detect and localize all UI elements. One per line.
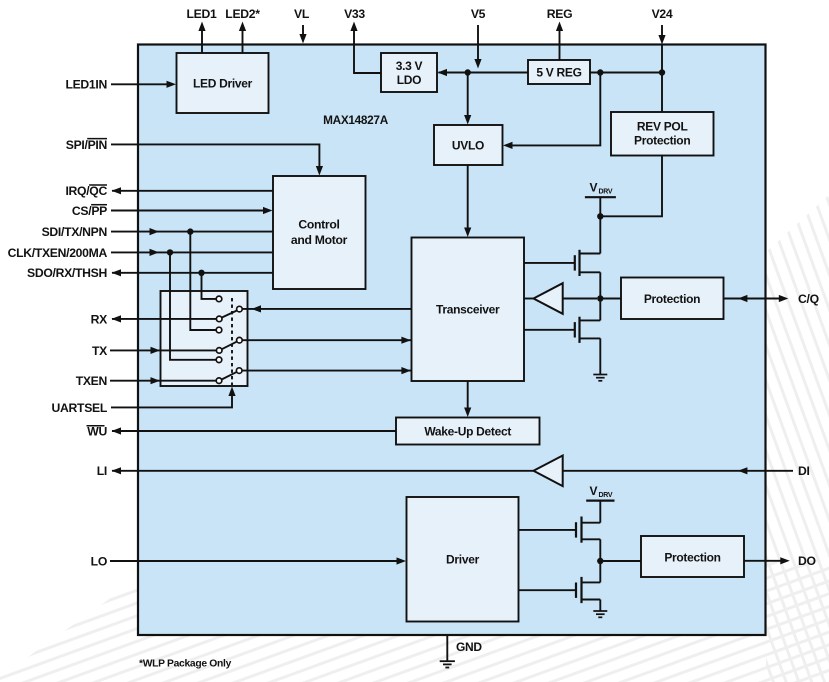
pin LED1IN wire into LED Driver: [65, 78, 176, 92]
svg-text:UVLO: UVLO: [452, 139, 484, 153]
wire VDRV to Q1 drain: [599, 197, 601, 253]
svg-text:TX: TX: [92, 344, 108, 358]
pin LED1: [187, 7, 217, 54]
ground (DO stage): [593, 611, 607, 617]
svg-text:V: V: [590, 181, 598, 195]
buffer A1 (receive comparator): [524, 283, 597, 314]
pin SDI/TX/NPN wire into Control: [42, 225, 273, 239]
svg-text:Driver: Driver: [446, 553, 480, 567]
wire VDRV to Q3 drain: [599, 501, 601, 523]
svg-text:REG: REG: [547, 7, 573, 21]
svg-text:LED2*: LED2*: [225, 7, 260, 21]
part label MAX14827A: [323, 113, 389, 127]
mux switch3 contacts: [216, 357, 242, 384]
svg-text:SPI/PIN: SPI/PIN: [66, 138, 107, 152]
wire UVLO to Transceiver: [464, 165, 471, 237]
pin TX wire into mux: [92, 344, 216, 358]
svg-text:GND: GND: [456, 640, 482, 654]
pin SPI/PIN wire into Control top: [66, 138, 323, 176]
pin DI wire into buffer A2: [563, 464, 810, 478]
mux dashed select line: [231, 298, 233, 385]
pin GND wire: [447, 635, 482, 661]
wire Q1 source to CQ node: [599, 272, 601, 298]
svg-text:LED Driver: LED Driver: [193, 77, 253, 91]
svg-text:VL: VL: [294, 7, 310, 21]
pin WU wire from Wake-Up Detect: [87, 424, 397, 438]
svg-text:TXEN: TXEN: [76, 374, 107, 388]
block Control and Motor: [273, 176, 366, 289]
svg-text:Protection: Protection: [644, 292, 700, 306]
mux switch2 blade: [222, 341, 238, 349]
supply VDRV (DO driver): [586, 484, 614, 501]
svg-text:DRV: DRV: [599, 189, 613, 196]
transistor Q3 high-side (DO): [519, 517, 601, 543]
wire Q4 source to ground: [599, 600, 601, 611]
pin SDO/RX/THSH wire from Control: [27, 266, 273, 280]
ground (C/Q stage): [593, 375, 607, 381]
svg-text:LED1: LED1: [187, 7, 217, 21]
ground GND symbol: [440, 661, 455, 667]
mux switch2 contacts: [216, 327, 242, 353]
pin TXEN wire into mux: [76, 374, 217, 388]
pin V33 + wire to LDO: [344, 7, 381, 73]
block UART/SPI mux switch: [161, 291, 248, 386]
svg-text:UARTSEL: UARTSEL: [52, 401, 108, 415]
block Driver: [407, 497, 519, 622]
svg-text:Protection: Protection: [664, 550, 720, 564]
pin UARTSEL wire into mux select: [52, 387, 236, 415]
block 3.3 V LDO: [381, 53, 437, 92]
wire rail node down to UVLO: [464, 69, 471, 124]
svg-text:LO: LO: [91, 554, 107, 568]
pin CLK/TXEN/200MA wire into Control: [8, 246, 273, 260]
svg-text:3.3 V: 3.3 V: [396, 59, 423, 73]
svg-text:*WLP Package Only: *WLP Package Only: [139, 659, 232, 670]
block Protection (C/Q): [621, 278, 724, 320]
block REV POL Protection: [611, 112, 714, 156]
transistor Q4 low-side (DO): [519, 561, 601, 603]
pin V24 wire into REV POL: [652, 7, 673, 112]
note WLP package: [139, 659, 232, 670]
mux switch1 contacts: [216, 296, 242, 322]
svg-text:and Motor: and Motor: [291, 233, 348, 247]
svg-text:REV POL: REV POL: [637, 120, 688, 134]
block Protection (DO): [641, 536, 744, 577]
block Transceiver: [412, 238, 525, 382]
background hatch bottom-left (decor skipped from labeling): [0, 195, 829, 682]
pin REG wire from 5V REG: [547, 7, 573, 60]
svg-text:V24: V24: [652, 7, 673, 21]
pin DO wire out: [744, 554, 816, 568]
wire Q2 source to ground: [599, 338, 601, 374]
wire transceiver RX out to mux: [242, 305, 411, 312]
pin V5 wire down to 5V rail: [471, 7, 486, 69]
mux switch3 blade: [222, 372, 237, 380]
svg-text:V: V: [590, 484, 598, 498]
pin VL: [294, 7, 310, 44]
svg-text:LDO: LDO: [397, 73, 421, 87]
junction CLK branch: [167, 249, 216, 360]
junction CQ node: [597, 295, 603, 301]
svg-text:LI: LI: [97, 464, 107, 478]
svg-text:SDI/TX/NPN: SDI/TX/NPN: [42, 225, 107, 239]
wire rail to UVLO enable (right side): [503, 69, 604, 149]
svg-text:DRV: DRV: [599, 492, 613, 499]
svg-text:C/Q: C/Q: [798, 292, 819, 306]
buffer A2 (DI receiver): [534, 456, 563, 487]
pin IRQ/QC wire from Control: [65, 184, 273, 198]
block UVLO: [434, 125, 503, 165]
svg-text:DI: DI: [798, 464, 810, 478]
svg-text:SDO/RX/THSH: SDO/RX/THSH: [27, 266, 107, 280]
wire 5V REG to V24 node: [590, 72, 662, 74]
junction VDRV / REV POL feed: [597, 213, 603, 219]
junction SDO branch: [198, 270, 216, 299]
junction DO node: [597, 558, 603, 564]
svg-text:RX: RX: [91, 312, 109, 326]
junction V24/rail: [659, 69, 665, 75]
svg-text:5 V REG: 5 V REG: [536, 66, 581, 80]
junction SDI branch: [187, 228, 216, 330]
svg-text:DO: DO: [798, 554, 816, 568]
transistor Q1 high-side (C/Q): [524, 250, 600, 276]
wire DO node to Protection: [600, 560, 641, 562]
wire REV POL down to VDRV node: [600, 156, 662, 217]
transistor Q2 low-side (C/Q): [524, 299, 600, 343]
svg-text:V33: V33: [344, 7, 365, 21]
svg-text:CS/PP: CS/PP: [72, 204, 107, 218]
svg-text:Control: Control: [298, 218, 339, 232]
wire mux TX out to transceiver: [242, 337, 411, 344]
wire CQ node to Protection: [600, 298, 621, 300]
svg-text:Transceiver: Transceiver: [436, 303, 500, 317]
chip body MAX14827A outline: [138, 45, 766, 636]
pin LI wire from buffer A2: [97, 464, 534, 478]
svg-text:Protection: Protection: [634, 134, 690, 148]
block 5 V REG: [528, 60, 590, 84]
mux switch1 blade: [222, 310, 238, 317]
block Wake-Up Detect: [396, 418, 540, 445]
block LED Driver: [177, 53, 269, 113]
svg-text:Wake-Up Detect: Wake-Up Detect: [424, 424, 511, 438]
pin LO wire into Driver: [91, 554, 406, 568]
supply VDRV (C/Q driver): [585, 181, 616, 198]
pin RX wire from mux: [91, 312, 217, 326]
pin C/Q bidirectional wire: [724, 292, 819, 306]
pin CS/PP wire into Control: [72, 204, 273, 218]
svg-text:CLK/TXEN/200MA: CLK/TXEN/200MA: [8, 246, 108, 260]
svg-text:MAX14827A: MAX14827A: [323, 113, 389, 127]
wire mux TXEN out to transceiver: [242, 367, 411, 374]
wire Q3 source to DO node: [599, 539, 601, 561]
pin LED2*: [225, 7, 260, 54]
svg-text:LED1IN: LED1IN: [65, 78, 107, 92]
svg-text:IRQ/QC: IRQ/QC: [65, 184, 107, 198]
svg-text:V5: V5: [471, 7, 486, 21]
wire 5V rail: 5V REG output to LDO: [438, 69, 529, 76]
wire Transceiver to Wake-Up Detect: [464, 381, 471, 417]
